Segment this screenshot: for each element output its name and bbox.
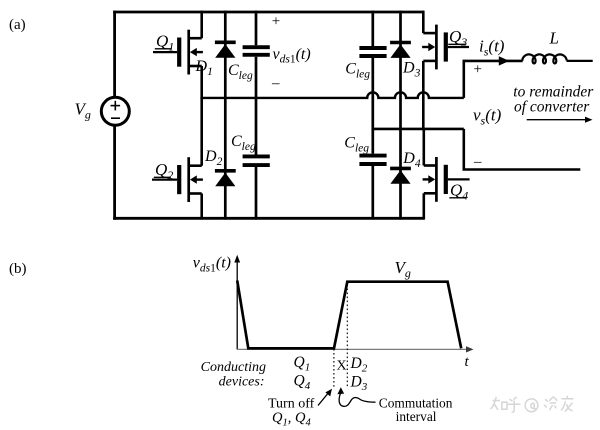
label Q3 [448, 27, 467, 49]
arrow turn off [318, 389, 332, 406]
diode D3 [390, 11, 411, 131]
diode D4 [390, 129, 411, 220]
svg-text:–: – [271, 76, 280, 92]
label to remainder of converter [513, 84, 594, 116]
svg-text:of converter: of converter [514, 99, 590, 116]
label Q4 [449, 181, 468, 203]
arrow squiggle commutation [337, 387, 375, 406]
wire output plus terminal [464, 61, 523, 98]
wire Q4 source [422, 193, 425, 219]
dashed line turn-off instant [333, 349, 335, 388]
svg-text:interval: interval [396, 409, 437, 424]
node A wire with hops [202, 92, 464, 98]
svg-text:devices:: devices: [219, 374, 265, 389]
capacitor Cleg lower-left [243, 97, 270, 220]
node B wire [373, 128, 464, 131]
wire top rail [113, 11, 423, 14]
inductor L [522, 54, 567, 63]
wire Q4 drain [422, 129, 425, 166]
svg-text:(a): (a) [9, 17, 26, 33]
svg-text:X: X [337, 359, 347, 374]
svg-text:+: + [474, 62, 482, 78]
voltage source Vg [101, 97, 129, 125]
transistor Q4 [423, 157, 470, 202]
arrow is current [499, 56, 510, 65]
svg-text:–: – [473, 154, 482, 170]
wire Q1 source [200, 66, 203, 99]
wire Q2 source [200, 194, 203, 220]
dashed line commutation end [346, 285, 348, 389]
label Q1 [155, 32, 174, 54]
svg-text:L: L [549, 28, 559, 47]
wire left branch upper [113, 11, 116, 98]
waveform t-axis [237, 346, 473, 352]
label Q2 [154, 160, 173, 182]
watermark zhihu [490, 396, 573, 412]
arrow to remainder [527, 117, 593, 123]
capacitor Cleg upper-left [243, 11, 270, 99]
label Commutation interval [379, 396, 453, 425]
transistor Q1 [153, 30, 203, 75]
svg-text:(b): (b) [9, 261, 27, 277]
waveform y-axis [234, 255, 240, 350]
transistor Q3 [422, 25, 469, 70]
wire after inductor [567, 60, 593, 62]
capacitor Cleg lower-right [359, 129, 386, 220]
waveform vds1 [237, 281, 461, 349]
wire left branch lower [113, 125, 116, 220]
wire Q1 drain [200, 11, 203, 39]
svg-text:+: + [272, 14, 280, 30]
wire Q2 drain [200, 97, 203, 166]
capacitor Cleg upper-right [359, 11, 386, 131]
diode D1 [215, 11, 236, 99]
svg-text:Conducting: Conducting [201, 360, 266, 375]
svg-text:vs(t): vs(t) [473, 106, 502, 128]
svg-text:is(t): is(t) [479, 37, 505, 59]
wire output minus terminal [464, 129, 581, 170]
wire Q3 drain [422, 11, 425, 33]
diode D2 [215, 97, 236, 220]
transistor Q2 [152, 157, 203, 202]
wire Q3 source [422, 61, 425, 130]
label Conducting devices [201, 360, 266, 389]
wire bottom rail [113, 217, 424, 220]
